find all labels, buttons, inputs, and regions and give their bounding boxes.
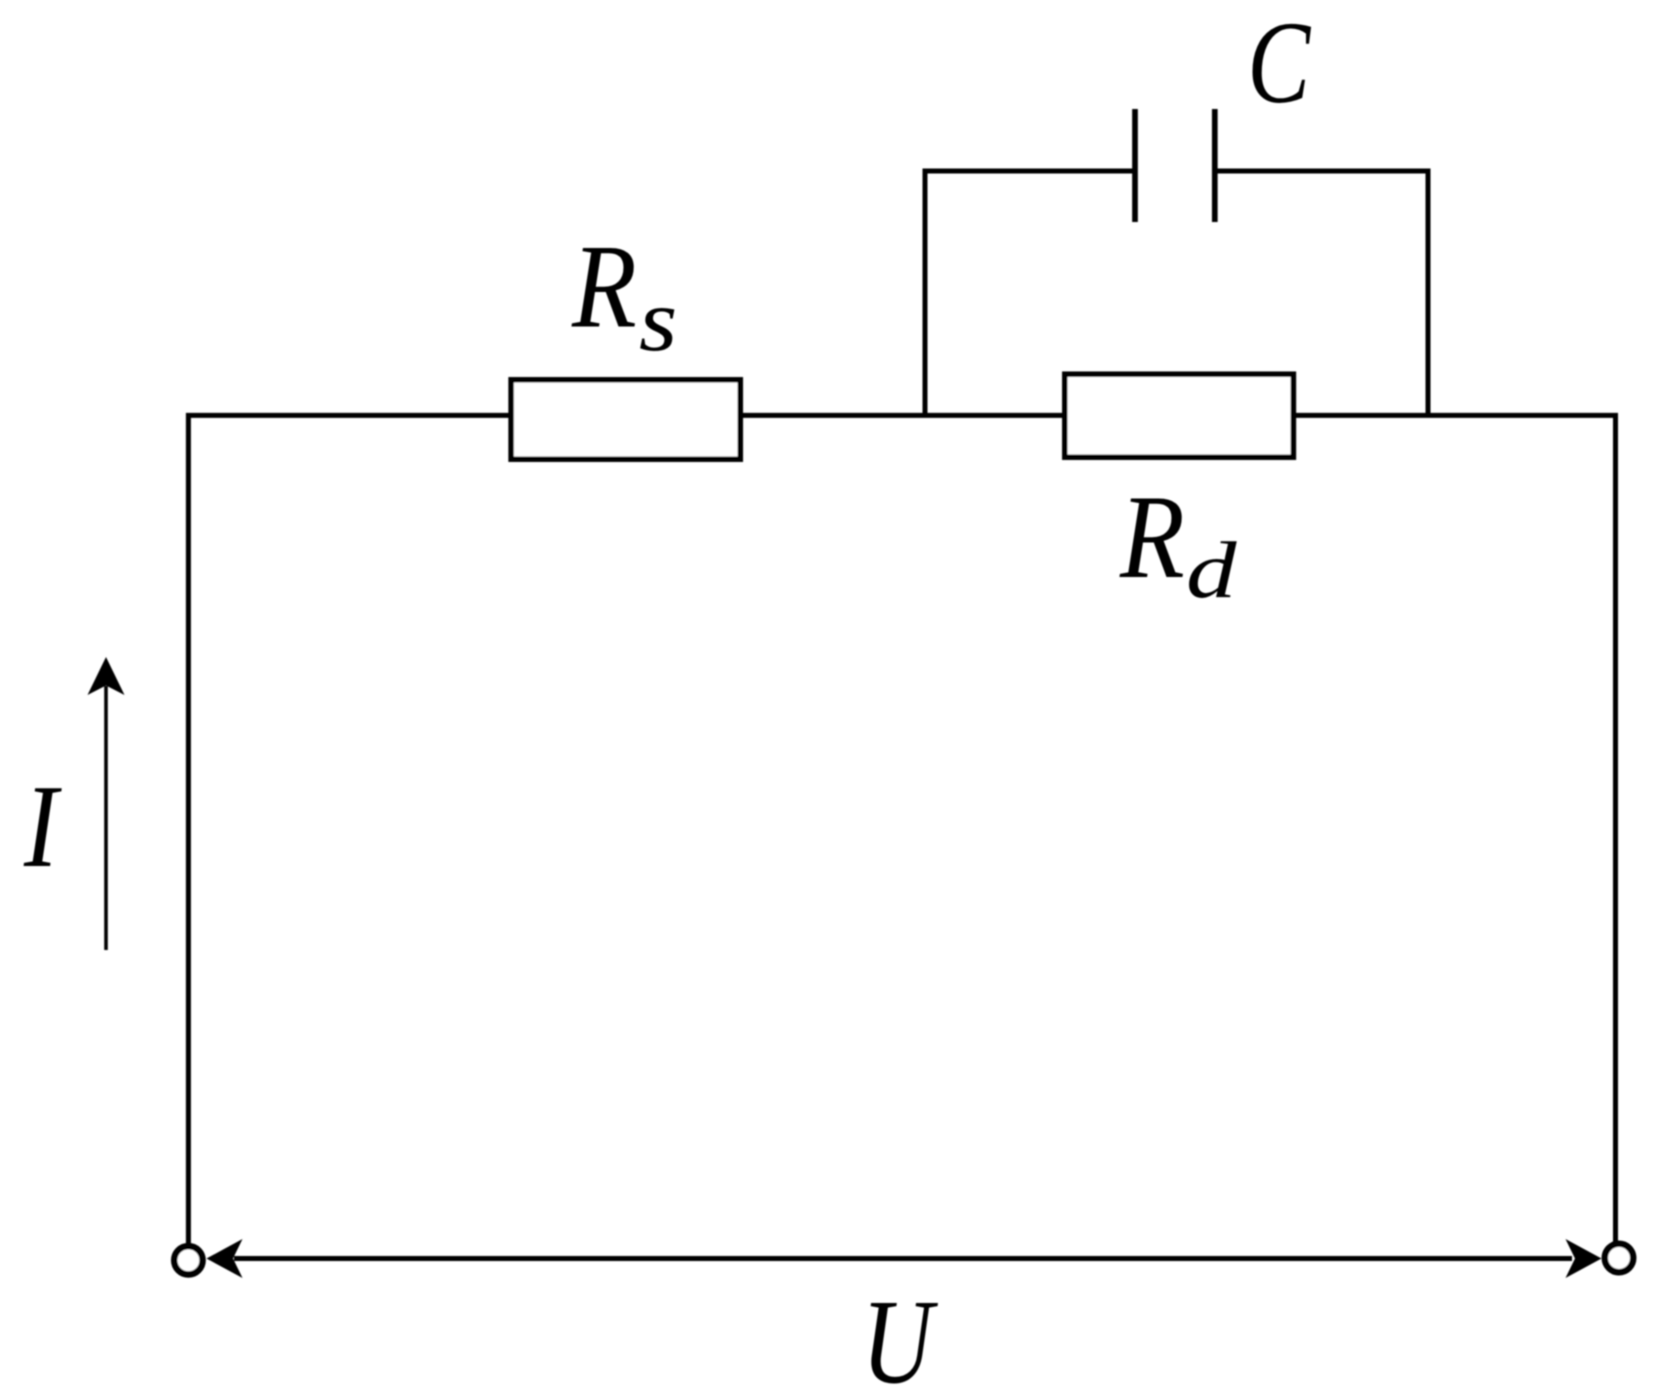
svg-text:U: U [862,1275,939,1400]
svg-text:I: I [23,759,62,891]
svg-text:d: d [1186,524,1237,614]
svg-text:R: R [1119,471,1185,604]
svg-text:C: C [1247,0,1311,129]
svg-text:s: s [639,271,677,370]
svg-text:R: R [571,221,637,354]
